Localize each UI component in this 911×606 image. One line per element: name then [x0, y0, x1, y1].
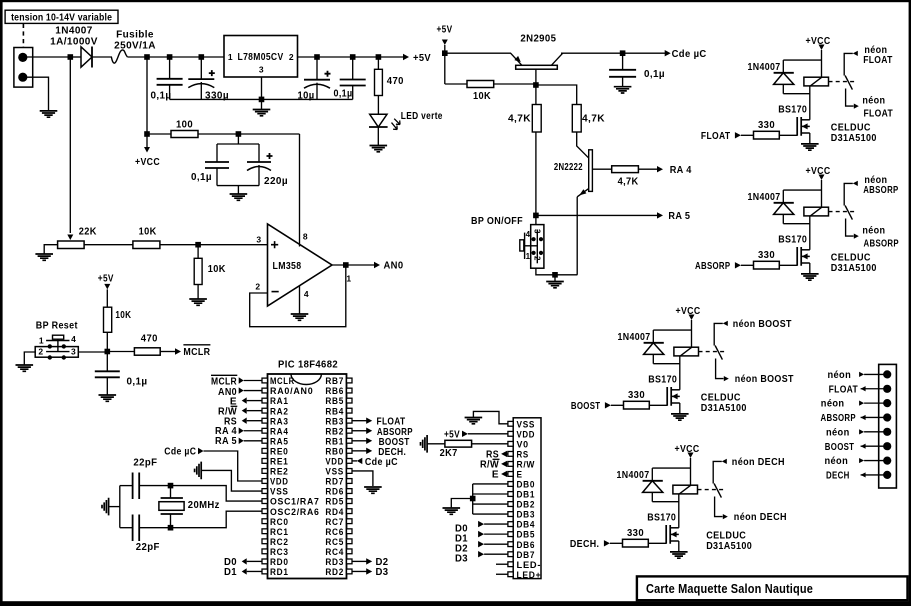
- wire op-amp pin 4 to ground: [299, 286, 301, 315]
- svg-text:néon: néon: [862, 95, 885, 106]
- wire R12 to RA4 arrow: [638, 168, 658, 170]
- svg-text:4: 4: [304, 289, 309, 299]
- U3 pin 23 RC4: [347, 549, 353, 554]
- node L Cde uC: [620, 50, 626, 56]
- node E cap C4: [350, 54, 356, 60]
- ground Q5: [801, 274, 819, 280]
- wire fuse to regulator U2 pin 1: [127, 56, 224, 58]
- svg-text:MCLR: MCLR: [211, 377, 237, 388]
- ground LED: [370, 146, 388, 152]
- svg-text:néon: néon: [826, 427, 850, 438]
- svg-text:FLOAT: FLOAT: [863, 55, 893, 66]
- svg-text:1: 1: [228, 52, 233, 62]
- U3 pin 14 OSC2/RA6: [262, 509, 268, 514]
- U3 pin 36 RB3: [347, 418, 353, 423]
- LED D2 verte: [370, 114, 387, 127]
- wire BP Reset to ground: [24, 352, 36, 365]
- resistor R4 22K: [58, 241, 85, 249]
- capacitor C4 0.1u output: [352, 57, 354, 80]
- wire node K to Q1 emitter: [445, 52, 511, 54]
- capacitor C6 220u: [258, 144, 260, 162]
- ground C7: [99, 395, 117, 401]
- wire R13 to ground: [427, 443, 445, 445]
- resistor 330 gate DECH.: [623, 539, 649, 547]
- U3 pin 9 RE1: [262, 459, 268, 464]
- svg-text:LM358: LM358: [273, 261, 302, 272]
- svg-text:ABSORP: ABSORP: [821, 413, 856, 424]
- relay K5 upper contact to neon ABSORP: [844, 183, 853, 205]
- J2 pin 12 DB5: [508, 532, 513, 537]
- svg-text:BS170: BS170: [648, 375, 677, 386]
- resistor R12 4.7K RA4: [612, 166, 639, 173]
- svg-text:4,7K: 4,7K: [618, 177, 639, 188]
- wire cap pair bottom rail: [217, 185, 259, 187]
- wire Q4 source to ground: [809, 133, 811, 144]
- svg-text:néon: néon: [828, 370, 852, 381]
- resistor R13 2K7 contrast: [445, 440, 472, 447]
- wire +VCC to relay K6: [691, 320, 693, 348]
- wire node N to RA5 arrow: [536, 214, 658, 216]
- svg-text:0,1µ: 0,1µ: [127, 376, 148, 387]
- connector J2 LCD: [513, 418, 541, 579]
- net label FLOAT gate input: [741, 134, 754, 136]
- svg-text:20MHz: 20MHz: [188, 500, 220, 511]
- wire diode top rail K4: [783, 59, 821, 61]
- J2 pin 3 V0: [508, 441, 513, 446]
- svg-text:330: 330: [758, 250, 775, 261]
- svg-text:néon: néon: [821, 399, 845, 410]
- resistor R9 10K base: [445, 83, 467, 85]
- svg-text:CELDUC: CELDUC: [831, 123, 871, 134]
- svg-text:ABSORP: ABSORP: [863, 185, 898, 196]
- U3 pin 38 RB5: [347, 398, 353, 403]
- resistor R2 100: [147, 133, 171, 135]
- wire coil K5 to Q5 drain: [809, 216, 811, 250]
- J2 pin 1 VSS: [508, 421, 513, 426]
- svg-text:+5V: +5V: [444, 430, 460, 441]
- node +VCC branch: [144, 131, 150, 137]
- wire 22K to ground: [44, 245, 57, 254]
- node O ground rail: [552, 272, 558, 278]
- svg-text:4: 4: [71, 334, 76, 344]
- +5V output arrow: [403, 54, 409, 60]
- J2 pin 5 R/W: [508, 462, 513, 467]
- wire gate Q7: [648, 542, 666, 544]
- wire cap pair top rail: [217, 143, 259, 145]
- wire LED to ground: [377, 127, 379, 146]
- diode D1 1N4007 input: [81, 47, 92, 67]
- wire coil K7 to Q7 drain: [678, 494, 680, 528]
- svg-text:2: 2: [532, 256, 541, 261]
- net label ABSORP at U3 RB2: [352, 430, 367, 432]
- svg-text:2: 2: [289, 52, 294, 62]
- svg-text:10K: 10K: [208, 264, 226, 275]
- svg-text:RD2: RD2: [325, 567, 344, 578]
- svg-text:10µ: 10µ: [298, 91, 315, 102]
- svg-text:DECH: DECH: [826, 471, 850, 482]
- svg-text:DECH.: DECH.: [570, 539, 600, 550]
- resistor 330 gate BOOST: [624, 401, 650, 409]
- ground 22K: [35, 254, 53, 260]
- svg-text:+5V: +5V: [98, 274, 114, 285]
- wire 4.7K left down to BP ON/OFF: [535, 132, 537, 225]
- wire J1 pin2 to ground: [26, 77, 49, 111]
- wire Q1 collector to Cde uC: [561, 52, 666, 54]
- wire R8 to MCLR arrow: [160, 351, 176, 353]
- svg-text:FLOAT: FLOAT: [829, 384, 859, 395]
- dashed link relay K7 contact: [698, 489, 725, 491]
- relay K5 contact blade: [845, 206, 852, 220]
- node H divider: [195, 242, 201, 248]
- net label DECH. at U3 RB0: [352, 450, 367, 452]
- node input junction: [68, 54, 74, 60]
- ground op-amp: [291, 314, 309, 320]
- node K +5V Q1: [442, 50, 448, 56]
- wire node A down to +VCC node: [146, 57, 148, 134]
- wire crystal left rail: [119, 486, 121, 528]
- svg-text:250V/1A: 250V/1A: [114, 40, 156, 51]
- svg-text:22pF: 22pF: [136, 542, 160, 553]
- wire diode top rail K7: [652, 467, 690, 469]
- svg-text:E: E: [492, 470, 499, 481]
- svg-text:4,7K: 4,7K: [582, 114, 605, 125]
- relay K4 contact blade: [845, 76, 852, 90]
- U3 pin 30 RD7: [347, 479, 353, 484]
- Q2 emitter: [577, 189, 589, 197]
- wire node to diode D1: [70, 56, 81, 58]
- U3 pin 29 RD6: [347, 489, 353, 494]
- resistor R5 10K: [133, 241, 160, 249]
- svg-text:3: 3: [259, 65, 264, 75]
- wire coil K4 to Q4 drain: [809, 86, 811, 120]
- wire crystal bottom rail to OSC2: [139, 511, 262, 528]
- svg-text:BOOST: BOOST: [571, 401, 601, 412]
- svg-text:D31A5100: D31A5100: [831, 133, 877, 144]
- wire J2 DB0-DB3 bus to ground: [473, 483, 508, 485]
- node J MCLR junction: [105, 349, 111, 355]
- ground DB0-DB3: [443, 508, 461, 514]
- relay coil K5: [804, 207, 829, 216]
- wire Q7 source to ground: [678, 541, 680, 552]
- svg-text:10K: 10K: [115, 310, 131, 321]
- svg-text:FLOAT: FLOAT: [864, 109, 894, 120]
- svg-text:RA 5: RA 5: [668, 211, 690, 222]
- svg-text:0,1µ: 0,1µ: [334, 89, 353, 100]
- relay K6 lower contact to neon BOOST: [716, 359, 724, 379]
- resistor R8 470 MCLR: [134, 348, 160, 355]
- svg-text:470: 470: [387, 76, 404, 87]
- svg-text:8: 8: [303, 232, 308, 242]
- J2 pin 10 DB3: [508, 512, 513, 517]
- IC U3 PIC 18F4682 body: [268, 374, 347, 579]
- svg-text:0,1µ: 0,1µ: [151, 91, 172, 102]
- svg-text:330: 330: [627, 528, 644, 539]
- wire left rail to ground: [109, 506, 120, 508]
- U3 pin 35 RB2: [347, 428, 353, 433]
- svg-text:+VCC: +VCC: [806, 36, 831, 47]
- wire Q2 emitter to ground rail: [576, 197, 578, 275]
- wire gate Q5: [779, 264, 797, 266]
- ground R13: [421, 435, 428, 453]
- U3 pin 25 RC6: [347, 529, 353, 534]
- capacitor C1 0.1u input: [169, 57, 171, 79]
- svg-text:BP ON/OFF: BP ON/OFF: [471, 216, 523, 227]
- relay K6 upper contact to neon BOOST: [714, 323, 723, 345]
- svg-text:470: 470: [141, 333, 158, 344]
- svg-text:10K: 10K: [139, 227, 157, 238]
- relay K4 upper contact to neon FLOAT: [844, 53, 853, 75]
- capacitor C3 10u: [316, 57, 318, 80]
- svg-text:2K7: 2K7: [440, 448, 458, 459]
- ground crystal: [102, 498, 109, 516]
- svg-text:D3: D3: [455, 553, 468, 564]
- U3 pin 12 VSS: [262, 489, 268, 494]
- wire node M to R11: [536, 85, 577, 105]
- arrow onto potentiometer 22K: [67, 235, 73, 241]
- wire R3 to LED: [377, 96, 379, 115]
- J3 pin 6 BOOST: [883, 442, 891, 450]
- J2 pin 7 DB0: [508, 482, 513, 487]
- resistor R11 4.7K right: [572, 105, 581, 133]
- crystal X1 20MHz: [170, 486, 172, 498]
- wire U3 VSS right to ground: [352, 471, 373, 486]
- ground R6: [189, 299, 207, 305]
- wire diode bottom rail K6: [653, 363, 680, 365]
- wire Cde uC to U3 VDD: [204, 451, 263, 481]
- ground BP Reset: [16, 365, 34, 371]
- net label ABSORP gate input: [741, 264, 754, 266]
- label tension 10-14V variable: [5, 10, 118, 23]
- relay coil K4: [804, 77, 829, 86]
- capacitor C9 22pF top: [120, 485, 133, 487]
- wire J1 pin1 to node: [26, 56, 70, 58]
- svg-text:CELDUC: CELDUC: [706, 531, 746, 542]
- relay coil K6: [674, 347, 699, 356]
- svg-text:RD1: RD1: [270, 567, 289, 578]
- J2 pin 4 RS: [508, 451, 513, 456]
- fuse F1 Fusible 250V/1A: [111, 50, 127, 63]
- svg-text:3: 3: [256, 235, 261, 245]
- J2 pin 2 VDD: [508, 431, 513, 436]
- dashed link relay K6 contact: [699, 351, 726, 353]
- connector J1 input: [14, 48, 33, 88]
- svg-text:D31A5100: D31A5100: [706, 541, 752, 552]
- svg-text:10K: 10K: [473, 91, 491, 102]
- U3 pin 24 RC5: [347, 539, 353, 544]
- wire diode bottom rail K7: [652, 501, 679, 503]
- svg-text:D31A5100: D31A5100: [831, 263, 877, 274]
- capacitor C10 22pF bottom: [120, 527, 133, 529]
- svg-text:néon BOOST: néon BOOST: [733, 319, 792, 330]
- svg-text:D1: D1: [224, 567, 237, 578]
- node B cap C1: [167, 54, 173, 60]
- capacitor C2 330u: [200, 57, 202, 79]
- J3 pin 1 néon: [883, 370, 891, 378]
- ground U3 VSS right: [364, 487, 382, 493]
- U3 pin 27 RD4: [347, 509, 353, 514]
- svg-text:BS170: BS170: [778, 105, 807, 116]
- svg-text:4,7K: 4,7K: [508, 114, 531, 125]
- net label D3 at U3 RD2: [352, 570, 367, 572]
- wire +5V down to R9: [444, 53, 446, 84]
- J3 pin 3 néon: [883, 399, 891, 407]
- svg-text:Cde µC: Cde µC: [164, 447, 196, 458]
- svg-text:Carte Maquette Salon Nautique: Carte Maquette Salon Nautique: [646, 581, 813, 596]
- wire regulator U2 pin 2 to +5V: [298, 56, 405, 58]
- svg-text:+VCC: +VCC: [806, 166, 831, 177]
- wire R7 to node MCLR: [106, 332, 108, 351]
- svg-text:1: 1: [346, 274, 351, 284]
- ground filter caps: [230, 194, 248, 200]
- svg-text:CELDUC: CELDUC: [701, 393, 741, 404]
- dashed link relay K5 contact: [829, 211, 856, 213]
- relay K7 lower contact to neon DECH: [715, 497, 723, 517]
- svg-text:D3: D3: [376, 567, 389, 578]
- wire crystal top rail to OSC1: [139, 486, 262, 502]
- svg-text:Cde µC: Cde µC: [672, 49, 707, 60]
- J3 pin 8 DECH: [883, 471, 891, 479]
- svg-text:+5V: +5V: [413, 53, 431, 64]
- net label FLOAT at U3 RB3: [352, 420, 367, 422]
- wire diode bottom rail K4: [783, 93, 810, 95]
- svg-text:+5V: +5V: [437, 24, 453, 35]
- svg-text:LED verte: LED verte: [401, 111, 443, 122]
- U3 pin 5 RA3: [262, 418, 268, 423]
- svg-text:BS170: BS170: [778, 235, 807, 246]
- U3 pin 22 RD3: [347, 559, 353, 564]
- svg-text:MCLR: MCLR: [183, 347, 210, 358]
- svg-text:4: 4: [526, 230, 531, 239]
- wire node J to R8: [107, 351, 134, 353]
- svg-text:220µ: 220µ: [264, 176, 288, 187]
- +VCC label input side: [144, 147, 150, 153]
- svg-text:néon DECH: néon DECH: [732, 457, 785, 468]
- node M base divider: [533, 82, 539, 88]
- J3 pin 7 néon: [883, 457, 891, 465]
- connector J3 neon outputs: [879, 364, 897, 488]
- relay K6 contact blade: [715, 346, 722, 360]
- wire diode top rail K5: [783, 189, 821, 191]
- capacitor C7 0.1u reset: [106, 352, 108, 372]
- wire diode bottom rail K5: [783, 223, 810, 225]
- ground Q6: [671, 414, 689, 420]
- net label BOOST at U3 RB1: [352, 440, 367, 442]
- capacitor C5 0.1u VCC: [216, 144, 218, 162]
- svg-text:2: 2: [255, 282, 260, 292]
- node G filter caps: [236, 131, 242, 137]
- svg-text:ABSORP: ABSORP: [695, 261, 730, 272]
- node N RA5: [533, 213, 539, 219]
- svg-text:330: 330: [758, 120, 775, 131]
- U3 pin 1 MCLR: [262, 378, 268, 383]
- svg-text:22pF: 22pF: [133, 457, 157, 468]
- node A fuse output: [144, 54, 150, 60]
- stub J2 LED-: [496, 563, 508, 565]
- ground regulator: [253, 110, 271, 116]
- wire R11 to Q2 base: [577, 132, 589, 158]
- U3 pin 33 RB0: [347, 448, 353, 453]
- U3 pin 15 RC0: [262, 519, 268, 524]
- svg-text:3: 3: [71, 347, 76, 357]
- wire +VCC to relay K4: [821, 50, 823, 78]
- svg-text:1N4007: 1N4007: [617, 470, 650, 481]
- svg-text:1N4007: 1N4007: [55, 26, 92, 37]
- wire Q5 source to ground: [809, 263, 811, 274]
- svg-text:néon: néon: [862, 225, 885, 236]
- svg-text:Cde µC: Cde µC: [365, 457, 398, 468]
- svg-text:22K: 22K: [79, 227, 97, 238]
- node regulator ground: [259, 97, 265, 103]
- wire ground to U3 VSS: [201, 470, 262, 491]
- svg-text:0,1µ: 0,1µ: [191, 172, 212, 183]
- net label BOOST gate input: [611, 404, 624, 406]
- wire input node down to 22K: [69, 57, 71, 233]
- U3 pin 17 RC2: [262, 539, 268, 544]
- U3 pin 40 RB7: [347, 378, 353, 383]
- wire coil K6 to Q6 drain: [679, 356, 681, 390]
- wire Q1 base down: [535, 69, 537, 84]
- wire R2 to node G: [198, 133, 300, 135]
- net label DECH. gate input: [610, 542, 623, 544]
- dashed wire from label to connector J1: [22, 24, 24, 47]
- net label Cde uC at U3 VDD right: [352, 460, 357, 462]
- node P crystal top: [168, 483, 174, 489]
- svg-text:L78M05CV: L78M05CV: [238, 52, 284, 63]
- J3 pin 4 ABSORP: [883, 413, 891, 421]
- wire diode top rail K6: [653, 329, 691, 331]
- ground symbol U3 VSS left: [195, 462, 202, 480]
- ground Q4: [801, 144, 819, 150]
- U3 pin 6 RA4: [262, 428, 268, 433]
- resistor 330 gate ABSORP: [754, 261, 780, 269]
- svg-text:100: 100: [176, 120, 193, 131]
- U3 pin 13 OSC1/RA7: [262, 499, 268, 504]
- node R DB bus ground tap: [470, 496, 476, 502]
- wire op-amp output: [332, 264, 375, 266]
- wire Q6 source to ground: [679, 403, 681, 414]
- wire J2 V0 to R13: [472, 443, 508, 445]
- svg-text:RA 5: RA 5: [215, 436, 237, 447]
- svg-text:BP Reset: BP Reset: [36, 320, 78, 331]
- U3 pin 31 VSS: [347, 469, 353, 474]
- svg-text:PIC 18F4682: PIC 18F4682: [278, 360, 338, 371]
- node Q crystal bottom: [168, 525, 174, 531]
- wire node G down to cap pair: [237, 134, 239, 144]
- title box Carte Maquette Salon Nautique: [637, 576, 908, 600]
- svg-text:2N2222: 2N2222: [554, 162, 583, 173]
- U3 pin 21 RD2: [347, 569, 353, 574]
- feedback wire op-amp: [250, 265, 346, 327]
- svg-text:1: 1: [526, 252, 531, 261]
- ground rail under regulator: [170, 98, 353, 100]
- page border frame: [0, 0, 911, 2]
- U3 pin 28 RD5: [347, 499, 353, 504]
- J2 pin 8 DB1: [508, 492, 513, 497]
- J2 pin 16 LED+: [508, 572, 513, 577]
- svg-text:AN0: AN0: [384, 261, 404, 272]
- relay K7 upper contact to neon DECH: [713, 461, 722, 483]
- svg-text:0,1µ: 0,1µ: [644, 69, 665, 80]
- svg-text:+VCC: +VCC: [135, 157, 160, 168]
- node C cap C2: [199, 54, 205, 60]
- U3 pin 34 RB1: [347, 438, 353, 443]
- J3 pin 2 FLOAT: [883, 385, 891, 393]
- U3 pin 8 RE0: [262, 448, 268, 453]
- U3 pin 26 RC7: [347, 519, 353, 524]
- ground J1: [40, 111, 58, 117]
- svg-text:1: 1: [39, 336, 44, 346]
- svg-text:FLOAT: FLOAT: [701, 131, 731, 142]
